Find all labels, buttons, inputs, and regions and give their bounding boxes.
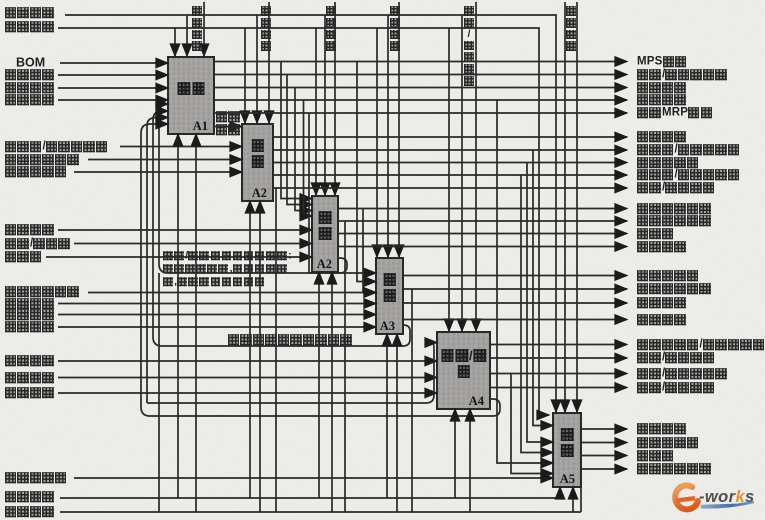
label feishengchan lingliaodan: [5, 286, 80, 298]
wire left input: BOM -> A1: [60, 62, 168, 64]
label output lingliaodan: [637, 228, 674, 240]
label qita qinggoudan: [5, 166, 67, 178]
label gongyingshang/huishoushang xinxi: [5, 141, 108, 153]
wire strategy control from top edge into A4 top: [475, 2, 477, 331]
wire A2 output row: gongyingshang/huishoushang pinggu: [273, 149, 627, 151]
wire mechanism branch operator up into production bottom: [331, 272, 333, 512]
wire A4 output row: xiaoshou/huishou liushuizhang: [490, 373, 627, 375]
wire drop from y28 control into A1 top: [174, 28, 176, 56]
wire long drop from production row y221 down to operator line: [344, 221, 346, 512]
label kehu dingdan: [5, 82, 55, 94]
wire A1 output row: waixie jihua: [214, 87, 627, 89]
wire A4 output row: xiaoshou/huishou feiyong: [490, 387, 627, 389]
logo e-works crossbar of letter e: [677, 498, 696, 500]
box A2 title: [250, 139, 265, 152]
label output feiyong: [637, 382, 715, 394]
wire A2 output row: caigou dingdan: [273, 136, 627, 138]
wire strategy control from top edge into A3 top: [398, 2, 400, 257]
label output zhizao/zaizhizao jihua: [637, 69, 728, 81]
logo text -works: [699, 488, 755, 507]
label yinhang duizhangdan: [5, 472, 67, 484]
wire strategy control from top edge into A5 top: [576, 2, 578, 412]
label zhizao/zaizhizao: [5, 238, 71, 250]
logo e-works swoosh letter e (orange): [672, 483, 699, 512]
wire left input: huishou xinxi -> A1: [58, 99, 168, 101]
wire A5 output row: zichan fuzhaibiao: [581, 442, 627, 444]
wire strategy control from top edge into A2b top: [334, 2, 336, 195]
label output pinggu: [637, 144, 740, 156]
label huishou ruku: [5, 321, 55, 333]
wire A3 output row: xiaoshou chuku: [403, 319, 627, 321]
label output tihuodan: [637, 339, 765, 351]
label strategy caigou celue (vertical): [260, 6, 272, 53]
label output lirunbiao: [637, 450, 674, 462]
label output dingdan zhixing: [637, 203, 712, 215]
note feedback line2: [163, 263, 288, 275]
wire caozuo renyuan(操作人员) mechanism line y512: [60, 511, 581, 513]
wire A3 output row: churuku liushuizhang: [403, 288, 627, 290]
label shichang diaoyan: [5, 355, 55, 367]
wire branch from A2 row y175 down into A5 left y452.5: [521, 175, 553, 453]
wire A1 output row: chaixie jihua: [214, 99, 627, 101]
wire strategy control from top edge into A2 top: [268, 2, 270, 123]
wire left input: lishi shuju -> A4: [58, 377, 437, 379]
wire mechanism branch tool-software up into production bottom: [318, 272, 320, 498]
wire mechanism branch tool-software up into A5 bottom: [559, 487, 561, 498]
label xiangguan fagui: [5, 21, 55, 33]
wire drop from y15 control into A1 top: [186, 15, 188, 56]
wire drop from y28 control into A3 top: [376, 28, 378, 257]
wire feedback y403 line with riser x147 and corner up into A4 left: [147, 118, 434, 404]
label zhengce fagui: [5, 387, 55, 399]
wire left input: shichang diaoyan -> A4: [58, 360, 437, 362]
wire left input: zhengce fagui -> A4: [58, 392, 437, 394]
wire left input: tuihuo ruku -> A3: [58, 314, 376, 316]
label output jingying zhuangkuang: [637, 463, 712, 475]
wire drop from y15 control into A4 top: [461, 15, 463, 331]
label output chaixie jihua: [637, 94, 687, 106]
wire production output row: dingdan zhixing qingkuang: [338, 208, 627, 210]
label lishi shuju: [5, 372, 55, 384]
logo e-works blue underline bar: [701, 501, 754, 509]
label output caigou dingdan: [637, 131, 687, 143]
label output yingfukuan: [637, 157, 699, 169]
wire branch from A4 row y373.5 down into A5 left y473.5: [511, 374, 553, 474]
wire A2 output row: gongyingshang/huishoushang zongzhang: [273, 174, 627, 176]
label caigou daohuo xinxi: [5, 154, 80, 166]
wire A2 output row: caigou/huishou ruku: [273, 187, 627, 189]
wire left input: qita qinggoudan -> A2: [74, 171, 242, 173]
label BOM: [16, 58, 45, 69]
wire drop from y28 control into A2 top: [244, 28, 246, 123]
wire feedback loop production->A1 (zhizao/zaizhizao fankui) via y273 and riser x159: [159, 104, 347, 273]
label waixie ruku: [5, 298, 55, 310]
label output bihuan MRP jihua: [637, 107, 713, 119]
wire left input: zhizao/zaizhizao -> production: [74, 243, 312, 245]
wire A5 output row: qiye jingying zhuangkuang: [581, 468, 627, 470]
wire left input: feishengchan lingliaodan -> A3: [88, 292, 376, 294]
label strategy paichan celue (vertical): [325, 6, 337, 53]
box A2 tag label: [252, 186, 267, 201]
wire mechanism branch operator up into A1 bottom: [195, 134, 197, 512]
label output yuce: [637, 352, 715, 364]
note chanpin huishou kucun xinxi fankui: [228, 334, 353, 346]
label huishou xinxi: [5, 94, 55, 106]
wire mechanism branch operator up into A4 bottom: [469, 409, 471, 512]
label output churuku danju: [637, 270, 699, 282]
wire drop from y15 control into A2b top: [324, 15, 326, 195]
box A4 xiaoshou/huishou(Sales/Recycle): [437, 332, 490, 409]
box A2 title: [318, 211, 333, 224]
box A5 tag label: [560, 472, 575, 487]
wire drop from y28 control into A2b top: [315, 28, 317, 195]
wire branch from A1 row y61.5 down into A3 left y281.5: [357, 62, 376, 282]
box A1 tag label: [193, 119, 208, 134]
note caigou jihua line2: [216, 124, 241, 136]
box A1 jihua(Plan): [168, 57, 214, 134]
wire long drop from A3 row y289 down to operator line: [411, 289, 413, 512]
wire A4 output row: xiaoshou/huishou yuce: [490, 357, 627, 359]
wire xiangguanfagui(相关法规) control line y28 corner down into A5 left: [58, 28, 549, 415]
label output wangong chuku: [637, 241, 687, 253]
wire A1 output row: MPS jihua: [214, 61, 627, 63]
box A3 title: [382, 273, 397, 286]
wire long drop from A2 row y188 down to operator line: [275, 188, 277, 512]
label output caigou/huishou ruku: [637, 182, 715, 194]
wire A3 output row: kucun feiyong: [403, 302, 627, 304]
box A4 title 销售/回收: [440, 348, 487, 363]
box A3 kucun(Inventory): [376, 258, 403, 334]
wire mechanism branch operator up into A3 bottom: [396, 334, 398, 512]
label output churuku liushui: [637, 283, 712, 295]
label ziyuan diaodu: [5, 224, 55, 236]
label output zongzhang: [637, 169, 740, 181]
wire left input: huishou ruku -> A3: [58, 326, 376, 328]
wire feedback loop A4->A1 via y416: [141, 124, 500, 416]
wire A3 output row: churuku danju: [403, 275, 627, 277]
label caozuo renyuan: [5, 506, 55, 518]
wire drop from y28 control into A4 top: [448, 28, 450, 331]
wire left input: waixie ruku -> A3: [58, 303, 376, 305]
wire left input: ziyuan diaodu -> production: [58, 229, 312, 231]
note feedback line1: [163, 250, 292, 262]
label output waixie jihua: [637, 82, 687, 94]
label output liushui: [637, 368, 728, 380]
note feedback line3: [163, 276, 266, 288]
note caigou jihua line1: [216, 111, 241, 123]
wire mechanism branch tool-software up into A1 bottom: [177, 134, 179, 498]
wire branch from A2 row y150 down into A5 left y425.5: [533, 150, 553, 426]
wire drop from y15 control into A3 top: [387, 15, 389, 257]
box A5 caiwu(Finance): [553, 413, 581, 487]
wire branch from A1 row y61.5 down into production left y198.5: [281, 62, 312, 199]
label tuihuo ruku: [5, 309, 55, 321]
wire caigou jihua(采购计划) A1 -> A2: [214, 126, 242, 128]
label jingying guifan: [5, 7, 55, 19]
wire mechanism branch tool-software up into A4 bottom: [454, 409, 456, 498]
wire left input: yinhang duizhangdan -> A5: [74, 477, 553, 479]
wire strategy control from top edge into A5 top: [564, 2, 566, 412]
wire A4 output row: xiaoshou tihuodan/huishou rukudan: [490, 344, 627, 346]
label duli xuqiu: [5, 69, 55, 81]
wire mechanism branch tool-software up into A2 bottom: [249, 201, 251, 498]
wire production output row: shengchan chengben shuju: [338, 220, 627, 222]
wire A5 output row: caiwu baobiao: [581, 428, 627, 430]
box A3 tag label: [380, 319, 395, 334]
wire strategy control from top edge into A1 top: [203, 2, 205, 56]
wire branch from A1 row y100 down into A5 left y463: [497, 100, 553, 463]
wire production output row: lingliaodan: [338, 233, 627, 235]
wire left input: duli xuqiu -> A1: [58, 74, 168, 76]
label strategy xiaoshou/huishou celue (vertical): [463, 6, 475, 88]
wire production output row: wangong chuku: [338, 246, 627, 248]
wire left input: youxianji -> production: [46, 256, 312, 258]
label strategy caiwu celue (vertical): [565, 6, 577, 53]
label output xiaoshou chuku: [637, 314, 687, 326]
wire branch from A1 row y87.5 down into production left y210.5: [295, 88, 312, 211]
wire branch from A2 row y162.5 down into A5 left y442: [527, 163, 553, 443]
wire branch from A1 row y100 down into production left y216: [304, 100, 313, 216]
label gongju ruanjian: [5, 491, 55, 503]
wire jingyingguifan(经营规范) control line y15 with corner down to A5 top: [65, 15, 556, 412]
wire A1 output row: zhizao/zaizhizao jihua: [214, 74, 627, 76]
label output kucun feiyong: [637, 297, 687, 309]
label output MPS jihua: [637, 56, 688, 68]
box A1 title 计划: [177, 82, 206, 95]
box A4 tag label: [469, 394, 484, 409]
label output fuzhaibiao: [637, 437, 699, 449]
wire left input: gongyingshang/huishoushang xinxi -> A2: [120, 146, 242, 148]
wire riser x159 extension down to operator line: [158, 273, 160, 512]
box A5 title: [560, 428, 575, 441]
wire mechanism branch tool-software up into A3 bottom: [386, 334, 388, 498]
wire left input: kehu dingdan -> A1: [58, 87, 168, 89]
wire A5 bottom-right drop to operator line: [580, 487, 582, 512]
wire branch from production row y208.5 down into A3 left y292.5: [363, 209, 376, 293]
wire branch from A1 row y74.5 down into production left y204.5: [287, 75, 312, 205]
label output caiwu baobiao: [637, 423, 687, 435]
label output chengben shuju: [637, 215, 712, 227]
wire gongju ruanjian(工具软件) mechanism line y498: [60, 497, 560, 499]
box A2 tag label: [317, 257, 332, 272]
wire A1 output row: bihuan MRP jihua: [214, 112, 627, 114]
label strategy kucun celue (vertical): [389, 6, 401, 53]
wire branch from A1 row y113 down into A3 left y273: [309, 113, 376, 273]
label youxianji: [5, 251, 42, 263]
box A2 shengchan(Production): [312, 196, 338, 272]
box A2 caigou(Purchase): [242, 124, 273, 201]
wire A5 output row: lirunbiao: [581, 455, 627, 457]
wire left input: caigou daohuo xinxi -> A2: [88, 159, 242, 161]
wire stub: [433, 347, 435, 349]
wire A2 output row: caigou yingfukuan: [273, 162, 627, 164]
wire drop from y15 control into A2 top: [256, 15, 258, 123]
wire mechanism branch operator up into A5 bottom: [572, 487, 574, 512]
wire feedback loop A3->A1 via y340 note line: [153, 111, 410, 346]
wire arrow riser x147 into A1 left y117.5: [160, 117, 168, 119]
wire mechanism branch operator up into A2 bottom: [259, 201, 261, 512]
label strategy jihua celue (vertical): [191, 6, 203, 53]
wire arrow into A4 left y342.5: [431, 342, 437, 344]
